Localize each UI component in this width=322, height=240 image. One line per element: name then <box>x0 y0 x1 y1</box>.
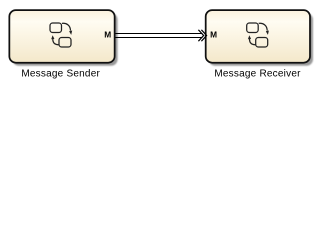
svg-text:Message Receiver: Message Receiver <box>214 69 301 80</box>
svg-text:Message Sender: Message Sender <box>21 69 100 80</box>
svg-text:M: M <box>104 30 111 40</box>
svg-text:M: M <box>210 30 217 40</box>
